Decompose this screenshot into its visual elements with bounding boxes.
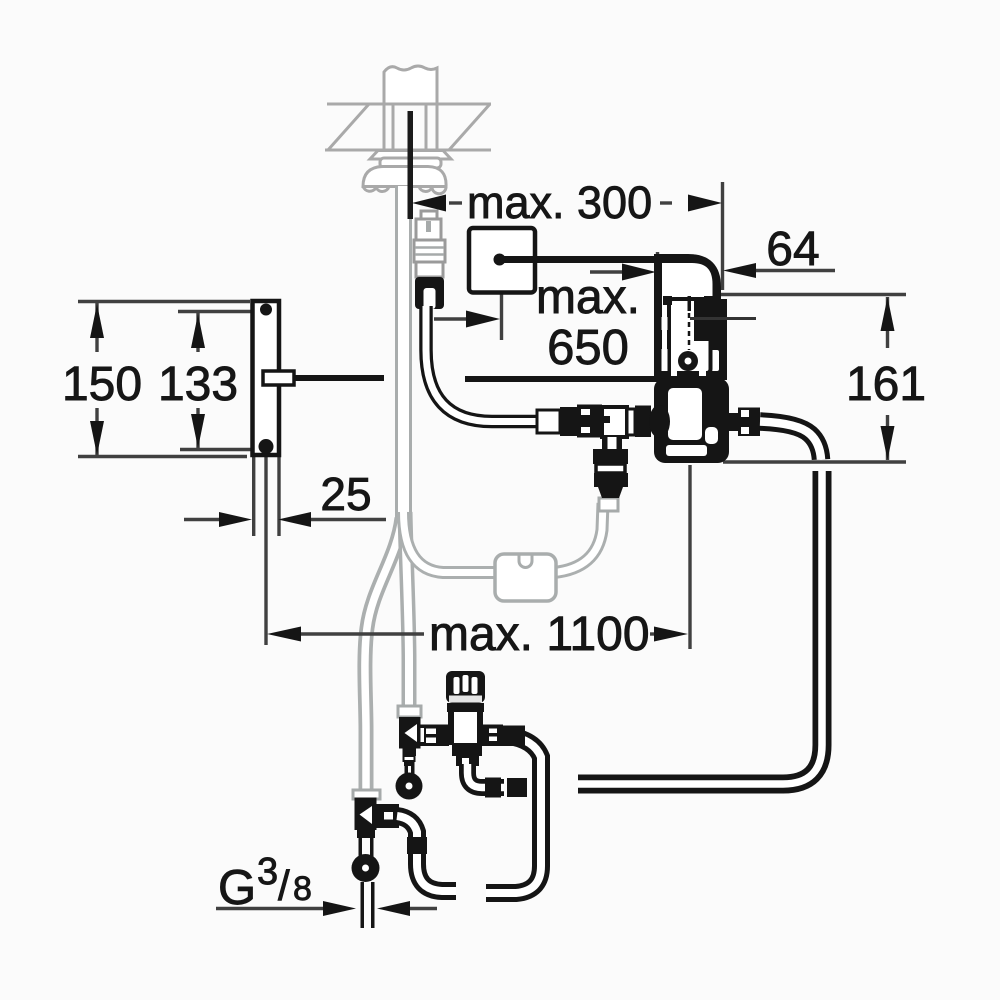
window circle [678,351,698,371]
window corner marks [663,296,672,305]
svg-text:max. 300: max. 300 [467,177,652,228]
svg-text:25: 25 [320,468,371,520]
control unit window [669,299,711,373]
gray collar under tee branch [599,498,618,511]
tee white ring [627,409,635,435]
dim 25 lines [184,518,221,521]
mixer shoulders [447,703,484,712]
angle valve lower parts [357,830,375,839]
window bottom slits [671,366,677,376]
faucet body above counter (break-line top) [384,66,437,104]
hot hose from mixer [486,735,541,893]
gray hose loop into filter [404,512,498,573]
arrow 133 down [191,414,205,448]
control wire from sensor box to control unit [499,260,716,303]
cold hose from angle valve [397,816,456,891]
plate lower channel right line [277,456,280,536]
outlet fitting nut [738,408,760,437]
dim 150 ticks [78,300,250,303]
dim 161 ticks [693,293,906,296]
svg-text:650: 650 [547,321,629,375]
lower angle valve body [355,798,377,831]
left stop valve body [399,717,421,749]
valve block top band [657,371,727,380]
dim 133 ticks [178,310,252,313]
dim max300 dashes [449,201,462,204]
dim 133 line [196,313,199,352]
window dark block top-right [694,301,710,341]
arrow 1100 left [267,627,301,642]
svg-text:G: G [218,861,256,915]
arrow max300 right [688,195,722,212]
mixer right arm [482,725,503,747]
dim G38 lines [216,907,324,910]
dim 1100 left ext [264,450,267,645]
arrow G38 left [323,901,356,916]
dim 150 line [95,303,98,352]
counter top line [327,103,491,106]
mixer elbow down [452,743,482,756]
connection cable to tee [426,306,541,422]
svg-text:8: 8 [293,870,312,908]
arrow G38 right [377,901,410,916]
counter bottom line [325,149,491,152]
solenoid valve body [654,378,729,463]
tee coupler block [577,405,602,438]
tee branch down [602,437,622,450]
dim 1100 right ext [688,465,691,649]
flange under counter [370,151,451,160]
union nut [649,405,670,438]
arrow 161 up [881,297,895,331]
window dashed line [688,313,691,350]
inline filter [495,554,556,601]
outlet hose long [578,471,822,784]
gray hose from filter up to tee branch [554,503,603,573]
gray cap of mixer supply [398,706,421,717]
mixer left arm [418,725,449,747]
faucet shank through counter [392,104,395,150]
arrow 25 right [278,512,311,527]
long rail line to control unit [465,376,700,382]
sensor pointer line [690,317,756,320]
supply tube below nut [395,186,412,520]
sensor box [469,228,535,293]
control unit outline [657,257,718,376]
svg-text:133: 133 [158,358,238,411]
window stub [688,296,692,311]
sensor cable in faucet [408,111,414,219]
svg-text:3: 3 [257,851,278,893]
counter right slant [449,104,490,150]
mounting plate [253,301,280,455]
mixer body [448,712,483,745]
svg-text:/: / [278,862,290,909]
svg-text:64: 64 [766,223,819,276]
control unit right column [706,299,727,378]
outlet fitting neck [727,413,738,431]
arrow 150 down [90,421,104,455]
arrow max300 left [412,195,446,212]
svg-text:max. 1100: max. 1100 [429,608,650,661]
plate tab [263,371,294,385]
dim max300 extension right [721,182,724,290]
control unit left edge [655,257,662,377]
dim 64 line [754,269,835,272]
rail line from plate [294,375,384,381]
tee collar white [537,410,560,433]
tee ring black right [635,406,651,438]
plug connector black end [415,277,444,309]
svg-text:161: 161 [846,358,926,411]
mounting nut dome [363,167,446,187]
plate lower channel left line [252,456,255,536]
arrow 64 [723,263,756,278]
gray hose to left shut-off valve [365,518,402,793]
svg-text:max.: max. [536,271,640,324]
arrow 650 upper [622,264,656,281]
dim 650 leader upper [590,270,624,273]
dim 1100 line [300,632,424,635]
plate screw top [260,304,272,316]
arrow 133 up [191,314,205,348]
tee ring black [560,407,577,436]
counter left slant [328,104,369,150]
arrow 161 down [881,426,895,460]
plug connector upper gray parts [414,211,445,277]
angle valve side arm [377,804,400,828]
sensor box dot [494,254,506,266]
gray cap of left valve supply [353,790,380,799]
arrow 650 lower [466,311,500,328]
svg-text:150: 150 [62,358,142,411]
plate screw bottom [259,439,274,454]
gray hose to mixer valve [405,512,409,710]
left sliver slits [662,317,668,330]
mixer valve cap [446,671,485,703]
arrow 25 left [219,512,252,527]
dim 161 line [886,297,889,348]
tee body [602,407,627,437]
arrow 150 up [90,304,104,338]
outlet spout [760,422,821,460]
arrow 1100 right [654,627,688,642]
dim 650 leader lower [500,293,503,341]
